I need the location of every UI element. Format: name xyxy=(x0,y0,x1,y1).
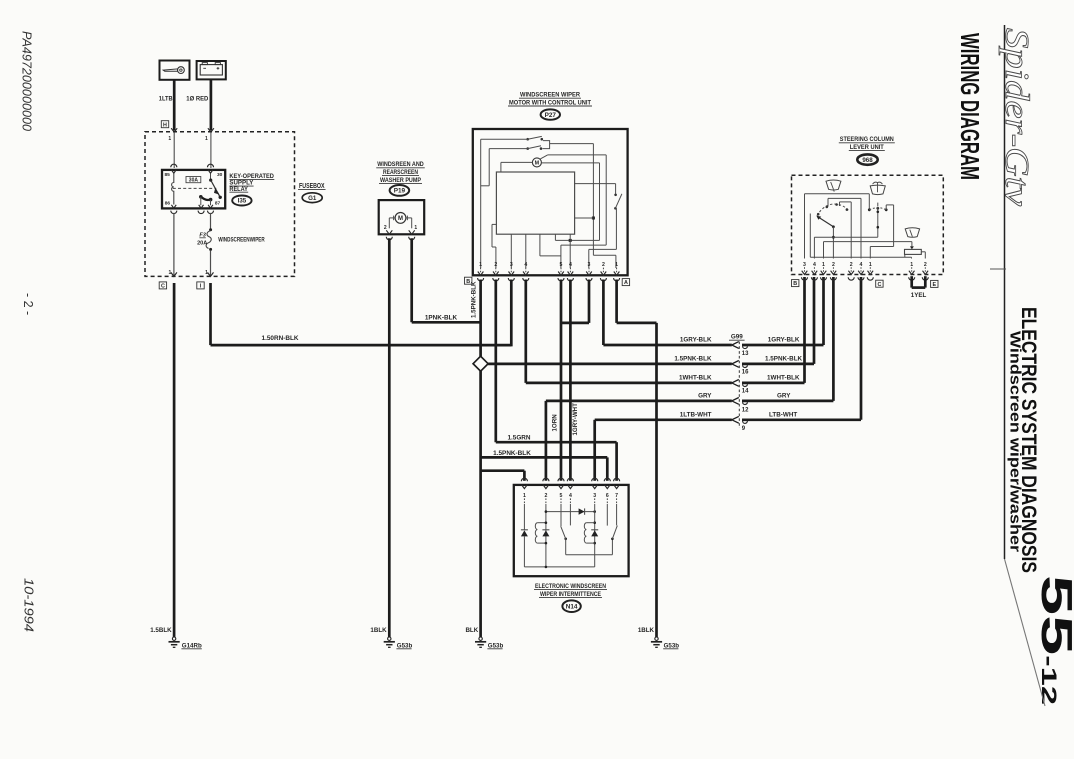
N14 switch right blade xyxy=(612,526,617,539)
relay terminal cups bottom xyxy=(171,211,177,214)
svg-text:1: 1 xyxy=(615,262,618,268)
rotary switch fan xyxy=(817,204,849,216)
svg-text:2: 2 xyxy=(602,262,605,268)
P27 park wire to pin 1A xyxy=(550,143,594,145)
svg-text:G1: G1 xyxy=(308,195,317,202)
svg-text:968: 968 xyxy=(862,157,873,164)
N14 pin4 contact xyxy=(569,504,571,525)
svg-text:1BLK: 1BLK xyxy=(638,627,655,634)
svg-text:A: A xyxy=(624,280,628,286)
washer switch xyxy=(868,208,871,211)
svg-text:14: 14 xyxy=(742,388,749,394)
svg-text:WINDSREEN AND: WINDSREEN AND xyxy=(377,161,424,168)
steering internal wire to pin 2C xyxy=(840,201,852,203)
fusebox ref oval G1 xyxy=(302,193,322,203)
svg-text:WINDSCREEN WIPER: WINDSCREEN WIPER xyxy=(520,92,580,99)
P27 motor M xyxy=(532,158,541,167)
svg-text:1: 1 xyxy=(869,262,872,268)
svg-text:5: 5 xyxy=(560,493,563,499)
svg-text:N14: N14 xyxy=(566,604,578,611)
svg-text:4: 4 xyxy=(569,493,572,499)
svg-text:7: 7 xyxy=(615,493,618,499)
svg-text:E: E xyxy=(932,282,936,288)
N14 ref oval xyxy=(562,600,580,612)
steering internal supply wire xyxy=(805,193,870,195)
svg-text:1: 1 xyxy=(205,136,208,142)
steering wire pin 1B to potentiometer xyxy=(824,241,912,243)
wire fuse to connector I xyxy=(210,251,212,277)
N14 pin7 contact xyxy=(616,504,618,525)
P27 connector cups xyxy=(478,278,484,281)
svg-text:STEERING COLUMN: STEERING COLUMN xyxy=(840,136,894,143)
connector C label box steering xyxy=(876,280,883,287)
svg-text:87: 87 xyxy=(215,201,221,207)
intermittence potentiometer xyxy=(905,249,922,254)
ground G53b BLK xyxy=(479,637,482,640)
svg-text:2: 2 xyxy=(384,225,387,231)
svg-text:1.50RN-BLK: 1.50RN-BLK xyxy=(262,335,299,342)
svg-text:2: 2 xyxy=(850,262,853,268)
svg-text:1: 1 xyxy=(414,225,417,231)
wiper icon small right xyxy=(905,228,919,238)
svg-text:1.5BLK: 1.5BLK xyxy=(150,627,172,634)
washer switch right contact wire to pin 1C xyxy=(885,205,887,210)
svg-text:P27: P27 xyxy=(545,112,557,119)
svg-text:M: M xyxy=(398,216,403,222)
svg-text:4: 4 xyxy=(813,262,816,268)
svg-text:G53b: G53b xyxy=(664,642,680,649)
connector H label box xyxy=(161,121,168,128)
svg-text:FUSEBOX: FUSEBOX xyxy=(299,183,325,190)
interconnect forks xyxy=(732,342,739,349)
wire 1GRY-BLK P27 pin 2A to interconnect xyxy=(602,280,605,346)
svg-text:- 2 -: - 2 - xyxy=(21,293,35,315)
N14 coil right and diode pin3 xyxy=(594,504,596,512)
P27 wire pin 3B xyxy=(510,234,512,268)
relay terminal arrows bottom xyxy=(171,205,176,208)
svg-text:1GRY-WHT: 1GRY-WHT xyxy=(572,403,579,436)
N14 pin arrows and numbers xyxy=(522,485,528,489)
ground G53b right xyxy=(655,637,658,640)
svg-text:1BLK: 1BLK xyxy=(370,627,387,634)
svg-text:5: 5 xyxy=(560,262,563,268)
jumper 1YEL xyxy=(910,276,913,287)
connector chevron key wire xyxy=(171,128,177,132)
ground G53b washer pump xyxy=(388,637,391,640)
wire 1BLK washer pump to ground xyxy=(388,238,391,637)
svg-text:2: 2 xyxy=(832,262,835,268)
svg-text:G53b: G53b xyxy=(488,642,504,649)
svg-text:1.5PNK-BLK: 1.5PNK-BLK xyxy=(674,356,712,363)
wire P27 pin 3A jog xyxy=(588,280,591,323)
svg-text:M: M xyxy=(535,161,540,167)
wire GRY to steering pin 2B xyxy=(742,400,833,403)
connector diamond junction xyxy=(473,356,488,371)
wire 1.5PNK-BLK diamond to interconnect xyxy=(488,363,732,366)
svg-text:1: 1 xyxy=(523,493,526,499)
connector C label box xyxy=(159,282,166,289)
washer icon xyxy=(873,182,883,184)
P27 wire pin 4A xyxy=(569,234,571,268)
svg-text:Spider-Gtv: Spider-Gtv xyxy=(998,28,1035,207)
connector A label box xyxy=(622,279,629,286)
wire P27 pin 3B down xyxy=(510,280,513,347)
washer pump box P19 xyxy=(379,200,425,234)
ground G14Rb xyxy=(172,637,175,640)
svg-text:PA497200000000: PA497200000000 xyxy=(20,31,35,132)
svg-text:2: 2 xyxy=(494,262,497,268)
P27 motor diagonal wire xyxy=(540,155,547,159)
P27 wire pin 4B xyxy=(525,234,527,268)
rotary switch blade xyxy=(818,217,834,227)
svg-text:4: 4 xyxy=(569,262,572,268)
svg-text:GRY: GRY xyxy=(698,393,712,400)
svg-text:H: H xyxy=(163,122,167,128)
N14 series diode xyxy=(546,511,595,513)
wire branch to N14 pin 6 xyxy=(481,456,608,459)
svg-text:WASHER PUMP: WASHER PUMP xyxy=(380,177,422,184)
svg-text:20A: 20A xyxy=(197,241,207,247)
N14 pin6 contact xyxy=(606,504,608,526)
svg-text:2: 2 xyxy=(544,493,547,499)
svg-text:1: 1 xyxy=(479,262,482,268)
relay coil xyxy=(172,174,174,205)
wire P27 pin 4A to N14 pin 4 xyxy=(569,280,572,481)
wiper motor box P27 xyxy=(473,129,628,275)
N14 box xyxy=(514,485,629,576)
N14 coil left xyxy=(537,522,546,524)
wire 1.5PNK-BLK to steering pin 4B xyxy=(742,363,814,366)
svg-text:P19: P19 xyxy=(394,188,406,195)
svg-text:4: 4 xyxy=(524,262,527,268)
N14 diode pin2 xyxy=(545,504,547,567)
svg-text:3: 3 xyxy=(588,262,591,268)
relay switch blade xyxy=(211,180,221,197)
enclosure exit chevrons xyxy=(171,272,177,276)
svg-text:85: 85 xyxy=(165,172,171,178)
fuse F3 20A xyxy=(209,228,212,231)
svg-text:1PNK-BLK: 1PNK-BLK xyxy=(425,314,458,321)
svg-text:BLK: BLK xyxy=(465,627,478,634)
wiper icon left xyxy=(826,180,841,190)
svg-text:3: 3 xyxy=(593,493,596,499)
connector chevron battery wire xyxy=(208,128,214,132)
sidebar tick xyxy=(990,268,1006,270)
wiper motor ref oval P27 xyxy=(541,109,560,119)
svg-text:30A: 30A xyxy=(189,178,199,184)
washer pump cups xyxy=(386,237,392,240)
svg-text:4: 4 xyxy=(860,262,863,268)
relay terminal arrows top xyxy=(171,170,176,173)
P27 junction dot pin4A xyxy=(569,239,572,242)
P27 internal wire lower park contact xyxy=(489,148,528,150)
relay ref oval I35 xyxy=(232,196,251,206)
svg-text:1LTB: 1LTB xyxy=(159,96,173,103)
steering connector cups xyxy=(802,277,808,280)
sidebar rule xyxy=(1004,25,1006,559)
N14 switch left xyxy=(560,504,562,526)
svg-text:6: 6 xyxy=(606,493,609,499)
washer pump motor M xyxy=(395,213,406,224)
svg-text:3: 3 xyxy=(510,262,513,268)
svg-text:WIRING DIAGRAM: WIRING DIAGRAM xyxy=(955,33,985,180)
connector I label box xyxy=(197,282,204,289)
svg-text:LTB-WHT: LTB-WHT xyxy=(769,411,797,418)
svg-text:3: 3 xyxy=(803,262,806,268)
svg-text:C: C xyxy=(161,284,165,290)
svg-text:1Ø RED: 1Ø RED xyxy=(186,96,208,103)
svg-text:C: C xyxy=(877,282,881,288)
svg-text:1GRY-BLK: 1GRY-BLK xyxy=(680,337,712,344)
svg-text:GRY: GRY xyxy=(777,393,791,400)
P27 junction dot control unit right xyxy=(592,217,595,220)
P27 wire limit switch to pin 3A xyxy=(615,208,617,249)
steering unit ref oval 968 xyxy=(857,154,877,164)
N14 connector cups xyxy=(521,478,527,481)
wire LTB-WHT to steering pin 4C xyxy=(742,418,861,421)
svg-text:Windscreen wiper/washer: Windscreen wiper/washer xyxy=(1007,331,1024,552)
svg-text:1.5PNK-BLK: 1.5PNK-BLK xyxy=(493,450,531,457)
svg-text:LEVER UNIT: LEVER UNIT xyxy=(850,144,884,151)
svg-text:REARSCREEN: REARSCREEN xyxy=(383,169,418,176)
relay I35 box xyxy=(162,170,225,209)
svg-text:MOTOR WITH CONTROL UNIT: MOTOR WITH CONTROL UNIT xyxy=(509,99,591,106)
P27 wire control unit to pin 5A xyxy=(539,234,541,256)
wire 87 to fuse F3 xyxy=(210,213,212,230)
svg-text:1WHT-BLK: 1WHT-BLK xyxy=(767,375,800,382)
connector B label box steering xyxy=(792,280,799,287)
P27 control unit inner box xyxy=(496,172,574,234)
P27 motor right wire xyxy=(541,162,599,164)
steering unit dashed box xyxy=(792,175,944,274)
battery symbol box xyxy=(197,61,226,79)
relay terminal cups top xyxy=(171,164,177,167)
relay actuation dashed link xyxy=(173,187,217,189)
wire 1WHT-BLK P27 pin 4B to interconnect xyxy=(524,280,527,383)
N14 bottom bus xyxy=(524,566,594,568)
svg-text:1: 1 xyxy=(168,136,171,142)
steering bottom internal bus xyxy=(810,256,911,258)
wire 1GRY-BLK to steering pin 1B xyxy=(742,344,824,347)
svg-text:16: 16 xyxy=(742,370,749,376)
svg-text:1: 1 xyxy=(910,262,913,268)
svg-text:1ORN: 1ORN xyxy=(552,414,559,432)
P27 park switch bracket xyxy=(543,141,550,149)
potentiometer to pin 2E xyxy=(921,251,925,253)
svg-text:1: 1 xyxy=(822,262,825,268)
P27 park switch contacts xyxy=(526,138,529,141)
svg-text:2: 2 xyxy=(924,262,927,268)
wire 1LTB from key xyxy=(173,80,176,131)
P27 limit switch xyxy=(575,183,616,185)
connector E label box steering xyxy=(931,280,938,287)
wire 1.50RN-BLK relay fuse to P27 pin 3B xyxy=(209,283,212,345)
relay switch pivot xyxy=(210,174,212,180)
key icon xyxy=(163,69,177,71)
battery icon xyxy=(200,65,222,75)
wire 1.5BLK relay 86 to ground G14Rb xyxy=(173,283,176,638)
steering internal horizontal to washer switch xyxy=(814,236,877,238)
svg-text:1.5PNK-BLK: 1.5PNK-BLK xyxy=(471,281,478,318)
svg-text:1LTB-WHT: 1LTB-WHT xyxy=(680,411,712,418)
svg-text:1.5GRN: 1.5GRN xyxy=(507,434,530,441)
interconnect right hooks xyxy=(743,346,748,348)
relay rating box 30A xyxy=(186,177,201,183)
wire 1LTB-WHT N14 pin 3 to interconnect xyxy=(593,420,596,481)
svg-text:I35: I35 xyxy=(238,198,247,205)
wire 1WHT-BLK to steering pin 3B xyxy=(742,382,805,385)
wire P27 pin 1B / 1.5PNK-BLK vertical xyxy=(479,280,482,357)
wire into relay terminal 30 xyxy=(210,133,212,168)
svg-text:B: B xyxy=(793,281,797,287)
wire 1.5GRN P27 pin 2B to N14 pin 7 xyxy=(494,280,497,443)
svg-text:1YEL: 1YEL xyxy=(911,292,927,299)
svg-text:WINDSCREENWIPER: WINDSCREENWIPER xyxy=(218,236,265,243)
connector B label box xyxy=(465,277,472,284)
rotary switch wire to pin 2B xyxy=(832,227,834,259)
wire 10 RED from battery xyxy=(210,79,213,130)
N14 diode pin1 xyxy=(523,504,525,530)
P27 motor left wire to control unit xyxy=(501,161,533,163)
svg-text:WIPER INTERMITTENCE: WIPER INTERMITTENCE xyxy=(540,591,602,598)
P27 internal wire pin1B to park switch xyxy=(481,138,528,140)
svg-text:G14Rb: G14Rb xyxy=(182,642,202,649)
wire 1PNK-BLK washer pump to junction xyxy=(410,238,413,322)
wire 86 to connector C xyxy=(173,213,175,276)
svg-text:86: 86 xyxy=(165,201,171,207)
wire branch to N14 pin 1 xyxy=(481,469,525,472)
interconnect dashed divider xyxy=(738,342,740,429)
P27 wire pin 2B xyxy=(495,247,497,268)
svg-text:1GRY-BLK: 1GRY-BLK xyxy=(768,337,800,344)
wire P27 pin 1A to ground run xyxy=(615,280,618,323)
wire into relay terminal 85 xyxy=(173,133,175,168)
svg-text:30: 30 xyxy=(217,172,223,178)
svg-text:10-1994: 10-1994 xyxy=(22,578,37,632)
svg-text:12: 12 xyxy=(742,407,749,413)
fusebox dashed enclosure xyxy=(145,132,295,277)
washer pump ref oval P19 xyxy=(390,185,410,196)
svg-text:G53b: G53b xyxy=(397,642,413,649)
svg-text:1WHT-BLK: 1WHT-BLK xyxy=(679,375,712,382)
steering internal wire to pin 4C xyxy=(828,197,861,199)
ignition key symbol box xyxy=(160,61,190,80)
wire P27 pin 5A to N14 pin 5 xyxy=(560,280,563,481)
sidebar diagonal crease xyxy=(1005,559,1046,706)
relay contact arc 87 xyxy=(201,197,211,200)
svg-text:1.5PNK-BLK: 1.5PNK-BLK xyxy=(765,356,803,363)
svg-text:13: 13 xyxy=(742,351,749,357)
svg-text:ELECTRONIC WINDSCREEN: ELECTRONIC WINDSCREEN xyxy=(535,583,606,590)
washer pump internal wires xyxy=(389,217,395,219)
wire GRY N14 pin 2 to interconnect xyxy=(545,401,548,481)
svg-text:G99: G99 xyxy=(731,334,743,341)
